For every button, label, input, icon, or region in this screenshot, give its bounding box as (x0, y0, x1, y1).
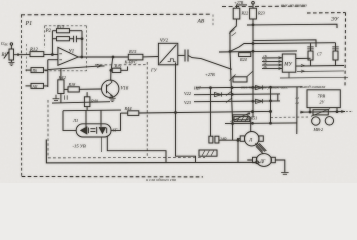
paper background (0, 0, 357, 183)
